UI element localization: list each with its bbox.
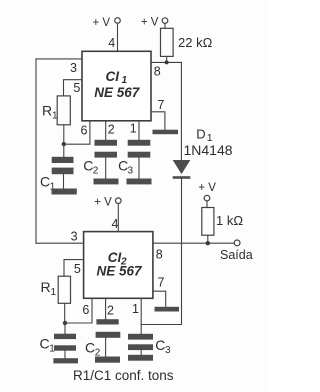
wire left bus pin3 CI1 to pin3 CI2	[35, 59, 37, 243]
svg-text:NE 567: NE 567	[94, 85, 141, 100]
ground (C1 bottom)	[53, 358, 78, 363]
pin 3 wire CI2	[36, 242, 84, 244]
ground (pin 7 CI2)	[155, 307, 180, 312]
svg-text:D: D	[196, 127, 205, 142]
resistor R1 (bottom)	[41, 276, 71, 303]
+V terminal T2 (22k supply)	[141, 17, 168, 29]
svg-text:1: 1	[130, 121, 137, 135]
junction node B (R1/C1/pin6 CI2)	[63, 321, 67, 325]
junction node A (R1/C1/pin6)	[62, 142, 66, 146]
svg-text:R: R	[41, 279, 51, 295]
svg-text:8: 8	[154, 64, 161, 78]
capacitor C3 (top)	[118, 140, 150, 177]
svg-text:8: 8	[156, 247, 163, 261]
wire R1 bottom to node B	[64, 303, 66, 323]
resistor 22k	[161, 28, 213, 56]
svg-text:3: 3	[128, 166, 134, 177]
ground (C2 bottom)	[95, 357, 120, 363]
svg-text:+ V: + V	[198, 182, 216, 194]
svg-text:1: 1	[49, 344, 55, 355]
pin 5 wire CI2	[64, 260, 84, 277]
wire R 22k to node	[166, 56, 168, 62]
capacitor C2 (bottom)	[85, 319, 120, 358]
wire pin8 node to D1	[180, 62, 182, 160]
terminal Saida	[220, 240, 253, 262]
wire T3 to pin 4 CI2	[117, 204, 119, 232]
pin 6 wire CI2	[65, 298, 92, 323]
svg-text:7: 7	[157, 98, 164, 112]
svg-text:6: 6	[82, 303, 89, 317]
wire T2 to R 22k	[164, 23, 166, 28]
svg-text:22 kΩ: 22 kΩ	[178, 35, 213, 50]
pin 7 wire CI2	[153, 291, 166, 307]
svg-text:4: 4	[108, 36, 115, 50]
junction node 22k/pin8	[165, 60, 169, 64]
svg-text:2: 2	[108, 122, 115, 136]
wire C3 to ground	[138, 158, 140, 179]
svg-text:+ V: + V	[93, 17, 111, 29]
svg-text:NE 567: NE 567	[96, 264, 143, 279]
+V terminal T3 (pin 4 CI2)	[94, 196, 121, 208]
pin 7 wire CI1	[151, 112, 165, 130]
svg-text:+ V: + V	[141, 17, 159, 29]
svg-text:C: C	[40, 174, 50, 190]
ground (C1 top)	[52, 189, 77, 195]
wire C3 bottom to ground	[140, 350, 142, 355]
svg-text:6: 6	[81, 124, 88, 138]
svg-text:1 kΩ: 1 kΩ	[216, 213, 243, 228]
svg-text:C: C	[40, 336, 50, 352]
svg-text:Saída: Saída	[220, 248, 253, 262]
pin 2 wire CI2	[105, 298, 107, 319]
wire C2 to ground	[105, 158, 107, 179]
svg-text:+ V: + V	[94, 196, 112, 208]
svg-text:1: 1	[51, 287, 57, 298]
capacitor C1 (bottom)	[40, 323, 77, 355]
wire R 1k to output node	[207, 235, 209, 243]
wire T4 to R 1k	[206, 201, 208, 208]
+V terminal T1 (pin 4 CI1)	[93, 17, 121, 29]
svg-text:3: 3	[165, 345, 171, 356]
resistor R1 (top)	[42, 96, 70, 125]
pin 5 wire CI1	[64, 80, 83, 96]
svg-text:1N4148: 1N4148	[184, 142, 233, 158]
+V terminal T4 (1k supply)	[198, 182, 216, 201]
svg-text:7: 7	[158, 276, 165, 290]
diode D1 1N4148	[173, 127, 233, 179]
capacitor C2 (top)	[83, 140, 117, 177]
pin 1 wire CI2	[140, 298, 142, 334]
svg-text:3: 3	[70, 61, 77, 75]
junction node output	[206, 241, 210, 245]
wire C1 to ground	[63, 174, 65, 188]
svg-text:2: 2	[93, 166, 99, 177]
svg-text:R: R	[42, 103, 52, 119]
svg-text:C: C	[85, 340, 95, 356]
wire C2 bottom to ground	[105, 338, 107, 357]
ground (C3 bottom)	[128, 355, 153, 361]
ground (C2 top)	[94, 179, 119, 185]
op IC CI1 NE567	[82, 51, 151, 121]
svg-text:2: 2	[107, 304, 114, 318]
svg-text:R1/C1 conf. tons: R1/C1 conf. tons	[73, 368, 174, 383]
pin 1 wire CI1	[138, 121, 140, 140]
ground (C3 top)	[127, 179, 152, 185]
pin 2 wire CI1	[105, 121, 107, 140]
wire T1 to pin 4 CI1	[117, 23, 119, 51]
svg-text:5: 5	[73, 81, 80, 95]
pin 8 wire CI2 (output line)	[153, 242, 234, 244]
capacitor C3 (bottom)	[128, 334, 171, 356]
svg-text:3: 3	[71, 230, 78, 244]
svg-text:4: 4	[112, 217, 119, 231]
pin 6 wire CI1	[64, 121, 90, 144]
wire D1 cathode down to pin1 CI2	[141, 179, 181, 325]
resistor 1k	[202, 208, 244, 236]
svg-text:CI: CI	[106, 69, 120, 84]
svg-text:5: 5	[74, 262, 81, 276]
capacitor C1 (top)	[40, 144, 74, 192]
svg-text:1: 1	[52, 111, 58, 122]
pin 8 wire CI1	[151, 61, 181, 63]
svg-text:1: 1	[132, 302, 139, 316]
pin 3 wire CI1	[36, 58, 82, 60]
wire R1 to node A	[63, 125, 65, 144]
svg-text:C: C	[155, 337, 165, 353]
wire C1 bottom to ground	[64, 351, 66, 359]
ground (pin 7 CI1)	[153, 130, 179, 135]
op IC CI2 NE567	[84, 232, 153, 299]
